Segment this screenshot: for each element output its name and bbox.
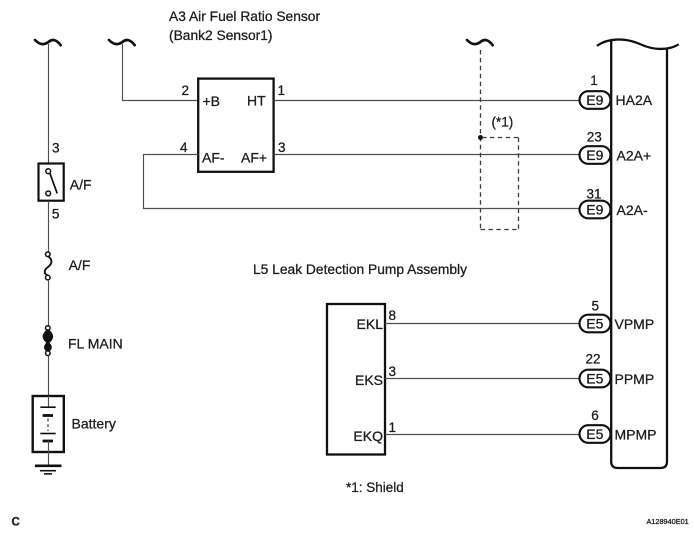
relay A/F box (39, 164, 64, 201)
connector E9 (HA2A) (580, 91, 611, 109)
off-page connector (battery feed wire top) (35, 40, 61, 45)
svg-text:*1: Shield: *1: Shield (346, 480, 404, 495)
shield dashed top edge (482, 137, 519, 139)
off-page connector (shield drain top) (467, 40, 493, 45)
ECM column body (611, 41, 667, 469)
battery internal dashed link (47, 419, 49, 432)
svg-text:A128940E01: A128940E01 (647, 517, 689, 526)
svg-text:A2A+: A2A+ (617, 148, 652, 164)
svg-text:6: 6 (591, 408, 599, 423)
wire: battery to ground (48, 441, 50, 466)
ground bar 2 (40, 470, 56, 472)
battery box (33, 396, 64, 452)
shield dashed right edge (518, 138, 520, 230)
wire: EKQ to ECM MPMP (385, 434, 580, 436)
battery plate long 2 (40, 433, 55, 435)
ECM column torn top edge (597, 40, 679, 49)
wire: AF- left stub (143, 154, 198, 156)
connector E5 (PPMP) (580, 370, 611, 388)
op-amp U: A3 air fuel ratio sensor box (198, 79, 273, 172)
connector E5 (VPMP) (580, 315, 611, 333)
relay contact top (46, 169, 51, 174)
fusible link FL MAIN terminal top (46, 326, 51, 331)
wire: HT to ECM HA2A (274, 100, 580, 102)
svg-text:EKL: EKL (357, 316, 384, 332)
svg-text:Battery: Battery (72, 416, 116, 432)
svg-text:3: 3 (52, 141, 60, 156)
shield junction dot (478, 135, 483, 140)
svg-text:MPMP: MPMP (615, 427, 657, 443)
svg-text:(*1): (*1) (492, 115, 514, 130)
svg-text:(Bank2 Sensor1): (Bank2 Sensor1) (169, 28, 273, 43)
svg-text:HA2A: HA2A (616, 92, 653, 108)
shield dashed bottom edge (481, 229, 519, 231)
shield dashed drain line (480, 50, 482, 230)
wire: AF- to ECM A2A- (143, 208, 580, 210)
svg-text:31: 31 (586, 187, 601, 202)
ground bar 1 (35, 464, 62, 467)
wire: battery feed vertical to relay (48, 44, 50, 164)
wire: relay to fuse (48, 201, 50, 252)
L5 leak detection pump assembly box (327, 304, 385, 455)
fusible link FL MAIN terminal bottom (46, 351, 51, 356)
off-page connector (+B feed wire top) (109, 40, 135, 45)
fuse A/F terminal top (46, 252, 51, 257)
wire: EKL to ECM VPMP (385, 323, 580, 325)
svg-text:A2A-: A2A- (617, 202, 648, 218)
wire: EKS to ECM PPMP (385, 378, 580, 380)
svg-text:E5: E5 (586, 426, 603, 442)
svg-text:PPMP: PPMP (615, 371, 655, 387)
svg-text:E5: E5 (586, 316, 603, 332)
fuse A/F element (45, 257, 52, 276)
svg-text:2: 2 (181, 83, 189, 98)
svg-text:4: 4 (180, 140, 188, 155)
svg-text:1: 1 (389, 420, 397, 435)
svg-text:A/F: A/F (69, 257, 91, 273)
wire: AF- vertical drop (143, 155, 145, 209)
svg-text:5: 5 (52, 207, 60, 222)
relay contact bottom (46, 191, 51, 196)
battery plate short 2 (43, 440, 53, 443)
relay switch arm (50, 173, 57, 193)
battery internal wire top (48, 396, 50, 407)
wire: fuse to fusible link (48, 280, 50, 326)
svg-text:E9: E9 (586, 92, 603, 108)
wire: +B feed vertical (122, 44, 124, 101)
svg-text:EKQ: EKQ (353, 428, 383, 444)
wire: fusible link to battery (48, 356, 50, 397)
svg-text:E5: E5 (586, 371, 603, 387)
svg-text:L5 Leak Detection Pump Assembl: L5 Leak Detection Pump Assembly (253, 262, 467, 277)
svg-text:8: 8 (389, 308, 397, 323)
battery plate long 1 (40, 406, 55, 408)
svg-text:EKS: EKS (355, 372, 383, 388)
wire: +B feed horizontal to sensor (122, 100, 199, 102)
svg-text:E9: E9 (586, 147, 603, 163)
svg-text:22: 22 (585, 352, 600, 367)
fusible link FL MAIN element (44, 330, 52, 351)
wire: AF+ to ECM A2A+ (274, 154, 580, 156)
svg-text:C: C (12, 517, 20, 529)
connector E9 (A2A-) (580, 201, 611, 219)
svg-text:HT: HT (247, 93, 266, 109)
svg-text:3: 3 (278, 140, 286, 155)
svg-text:E9: E9 (586, 202, 603, 218)
svg-text:23: 23 (587, 130, 602, 145)
svg-text:5: 5 (592, 299, 600, 314)
connector E5 (MPMP) (580, 425, 611, 443)
fuse A/F terminal bottom (46, 275, 51, 280)
svg-text:1: 1 (590, 73, 598, 88)
svg-text:VPMP: VPMP (615, 316, 655, 332)
svg-text:1: 1 (278, 83, 286, 98)
connector E9 (A2A+) (580, 146, 611, 164)
svg-text:A/F: A/F (70, 177, 92, 193)
battery plate short 1 (43, 414, 53, 417)
svg-text:AF+: AF+ (241, 150, 267, 166)
svg-text:A3 Air Fuel Ratio Sensor: A3 Air Fuel Ratio Sensor (169, 9, 320, 24)
svg-text:AF-: AF- (202, 150, 225, 166)
svg-text:+B: +B (203, 93, 221, 109)
ground bar 3 (44, 473, 52, 475)
svg-text:FL MAIN: FL MAIN (68, 336, 123, 352)
svg-text:3: 3 (389, 364, 397, 379)
